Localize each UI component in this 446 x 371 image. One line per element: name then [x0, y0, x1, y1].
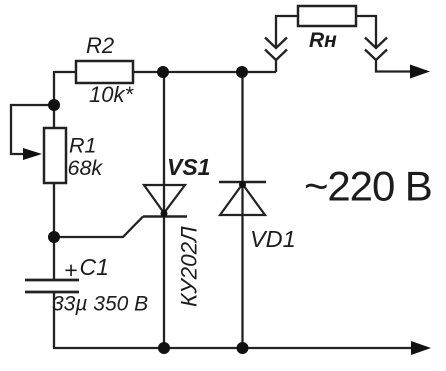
svg-text:VS1: VS1: [167, 154, 210, 180]
wire: left rail vertical (top): [53, 71, 55, 128]
wire: X2 stub and output line: [376, 60, 412, 72]
arrowhead: top output: [410, 65, 430, 79]
node: VD1 bottom junction: [237, 342, 249, 354]
capacitor C1 bottom plate: [25, 291, 79, 294]
svg-text:C1: C1: [80, 254, 109, 280]
svg-text:R1: R1: [69, 134, 96, 158]
svg-text:68k: 68k: [68, 156, 104, 180]
svg-text:VD1: VD1: [250, 226, 296, 252]
wire: X1 stub to top bus: [275, 60, 277, 72]
resistor R2 body: [76, 61, 133, 83]
svg-text:R2: R2: [86, 33, 114, 58]
wire: Rн right lead: [356, 16, 376, 48]
wire: top bus middle segment: [133, 71, 276, 73]
wire: VD1 branch vertical: [241, 72, 243, 348]
node: R2 right junction: [157, 66, 169, 78]
wire: left rail below C1: [53, 292, 55, 348]
wire: R1 wiper tie: [11, 105, 54, 154]
connector X2 chevron lower right: [365, 50, 387, 61]
svg-text:~220 В: ~220 В: [304, 163, 432, 210]
node: VS1 cathode bottom junction: [158, 342, 170, 354]
resistor R1 body: [44, 128, 66, 183]
junction blob: VS1 apex: [161, 210, 168, 217]
svg-text:КУ202Л: КУ202Л: [177, 226, 202, 307]
connector X1 chevron lower left: [265, 50, 287, 61]
wire: gate wire: [54, 217, 143, 238]
svg-text:+: +: [64, 257, 77, 283]
node: VD1 top junction: [236, 66, 248, 78]
wire: bottom bus: [53, 347, 414, 349]
connector X1 chevron upper left: [265, 38, 287, 49]
node: gate tap junction: [48, 231, 60, 243]
diode VD1 cathode bar: [219, 181, 266, 184]
thyristor VS1 triangle: [144, 185, 185, 213]
svg-text:33µ 350 В: 33µ 350 В: [52, 293, 148, 316]
junction blob: VD1 apex: [239, 181, 246, 188]
wire: VS1 anode vertical: [163, 72, 165, 348]
arrowhead: R1 wiper: [23, 148, 42, 160]
wire: top bus left segment: [54, 71, 76, 73]
svg-text:10k*: 10k*: [89, 82, 134, 107]
arrowhead: bottom output: [411, 341, 431, 355]
thyristor VS1 cathode bar: [143, 215, 187, 218]
wire: left rail R1 to gate node: [53, 183, 55, 280]
connector X2 chevron upper right: [365, 38, 387, 49]
diode VD1 triangle: [220, 184, 265, 215]
wire: Rн left lead: [276, 16, 298, 48]
svg-text:Rн: Rн: [309, 29, 337, 52]
capacitor C1 top plate: [25, 279, 79, 282]
node: R1 top junction: [48, 99, 60, 111]
resistor Rн body: [298, 6, 356, 26]
